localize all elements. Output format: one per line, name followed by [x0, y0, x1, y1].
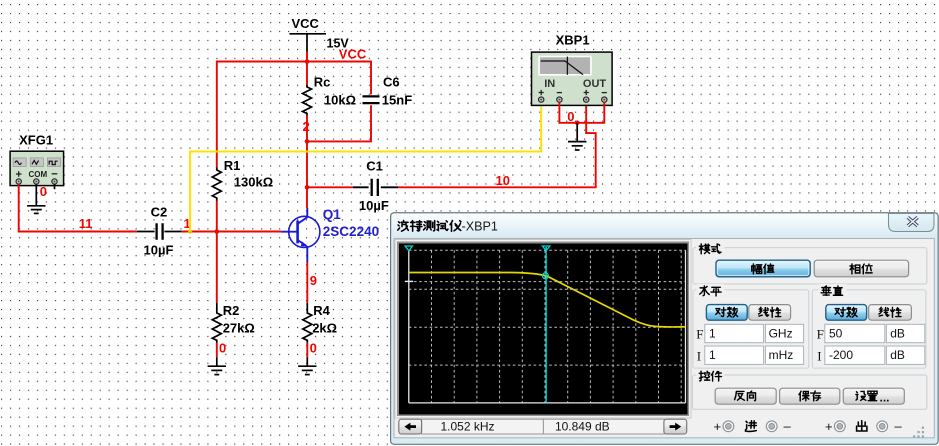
button 线性 V: [869, 305, 912, 321]
svg-text:I: I: [817, 348, 821, 363]
plot panel frame: [395, 239, 692, 419]
resistor R1: [212, 168, 221, 201]
svg-text:0: 0: [40, 184, 47, 199]
readout left arrow button: [399, 419, 422, 434]
left edge marker: [405, 246, 413, 251]
wire R1 bottom to base node: [216, 201, 218, 232]
resistor Rc: [303, 85, 312, 116]
junction node VCC rail: [305, 59, 310, 64]
capacitor C1: [353, 179, 398, 196]
svg-text:GHz: GHz: [769, 326, 793, 340]
svg-text:COM: COM: [29, 170, 48, 179]
svg-text:10.849 dB: 10.849 dB: [555, 419, 610, 433]
svg-text:F: F: [817, 327, 824, 342]
wire C2 to base node: [182, 231, 217, 233]
svg-text:1: 1: [709, 348, 716, 362]
terminal XFG1 COM: [34, 179, 39, 184]
wire C6 bottom to node 2: [307, 105, 371, 141]
svg-text:2: 2: [303, 119, 310, 134]
svg-text:F: F: [696, 327, 703, 342]
svg-text:+: +: [825, 419, 833, 434]
readout field frequency: [422, 419, 544, 434]
terminal XBP1 IN+: [539, 97, 544, 102]
plot grid: [409, 250, 686, 403]
svg-text:mHz: mHz: [769, 348, 794, 362]
svg-text:10µF: 10µF: [144, 243, 174, 258]
button 保存: [780, 388, 840, 404]
cursor circle on curve: [542, 273, 548, 279]
junction collector node: [305, 185, 310, 190]
svg-text:10kΩ: 10kΩ: [324, 92, 356, 107]
svg-text:C1: C1: [366, 159, 383, 174]
svg-text:dB: dB: [890, 326, 905, 340]
button 幅值 (selected): [716, 260, 810, 277]
cursor line: [545, 247, 547, 403]
capacitor C2: [137, 223, 182, 240]
dialog content area: [394, 239, 934, 438]
svg-text:2SC2240: 2SC2240: [323, 224, 379, 239]
dialog window frame: [391, 213, 939, 445]
svg-text:1.052 kHz: 1.052 kHz: [440, 419, 494, 433]
svg-text:0: 0: [219, 341, 226, 356]
button 线性 H: [749, 305, 791, 321]
svg-text:IN: IN: [544, 78, 555, 90]
dialog close button: [889, 213, 935, 231]
group 水平: [693, 290, 809, 368]
wire base node to R2: [216, 232, 218, 303]
svg-text:Rc: Rc: [314, 75, 331, 90]
wire XFG1 COM to ground: [35, 184, 37, 206]
svg-text:130kΩ: 130kΩ: [234, 174, 273, 189]
svg-text:0: 0: [310, 341, 317, 356]
wire node 2 to collector node: [306, 141, 308, 187]
ground R2: [208, 357, 226, 374]
wire XFG1 + down: [18, 184, 20, 231]
in probe +/- row: [714, 418, 903, 434]
svg-text:...: ...: [880, 390, 890, 404]
function generator XFG1 body: [10, 151, 64, 185]
axis marker tick: [405, 280, 413, 282]
svg-text:11: 11: [79, 216, 93, 231]
transistor Q1 2SC2240: [281, 208, 320, 262]
svg-text:10µF: 10µF: [359, 198, 389, 213]
svg-text:-XBP1: -XBP1: [462, 219, 498, 233]
wire base node to Q1 base: [217, 231, 281, 233]
power VCC symbol: [289, 34, 326, 52]
svg-text:OUT: OUT: [583, 78, 607, 90]
svg-text:9: 9: [310, 273, 317, 288]
readout right arrow button: [664, 419, 687, 434]
svg-text:dB: dB: [890, 348, 905, 362]
svg-text:C2: C2: [151, 205, 168, 220]
resistor R4: [303, 303, 312, 343]
svg-text:–: –: [895, 418, 903, 433]
resistor R2: [212, 303, 221, 343]
readout field magnitude: [543, 419, 664, 434]
wire Rc bottom to node 2: [306, 116, 308, 142]
wire input net 11: [18, 231, 137, 233]
ground R4: [298, 357, 316, 374]
svg-text:2kΩ: 2kΩ: [312, 320, 337, 335]
button 对数 H (selected): [706, 305, 747, 321]
bode magnitude curve: [409, 273, 686, 327]
svg-text:C6: C6: [383, 75, 400, 90]
group 垂直: [812, 290, 925, 368]
button 设置...: [843, 388, 904, 404]
bode plotter XBP1 body: [532, 52, 613, 105]
svg-text:27kΩ: 27kΩ: [223, 320, 255, 335]
group 模式: [693, 248, 927, 284]
svg-text:+: +: [714, 419, 722, 434]
resize grip: [913, 427, 924, 438]
svg-text:R2: R2: [223, 303, 240, 318]
button 相位: [814, 260, 908, 277]
junction base node 1: [215, 229, 220, 234]
svg-text:R4: R4: [313, 303, 330, 318]
wire R2 to ground: [216, 343, 218, 357]
cursor top marker: [542, 246, 550, 251]
wire collector node to Q1 collector: [306, 187, 308, 208]
junction XBP ground node: [575, 121, 580, 126]
junction node 2: [305, 139, 310, 144]
wire yellow to Bode IN+: [190, 106, 541, 232]
capacitor C6: [363, 96, 380, 103]
wire VCC stem (red part): [306, 52, 308, 62]
wire collector node to C1: [307, 186, 353, 188]
terminal XBP1 OUT+: [584, 97, 589, 102]
terminal XBP1 OUT-: [602, 97, 607, 102]
wire C1 to Bode OUT+ (net 10): [398, 106, 596, 188]
svg-text:50: 50: [829, 326, 843, 340]
terminal XFG1 -: [52, 179, 57, 184]
wire VCC rail to R1 branch: [217, 62, 307, 168]
svg-text:R1: R1: [224, 158, 241, 173]
svg-text:I: I: [697, 348, 701, 363]
svg-text:–: –: [784, 418, 792, 433]
svg-text:VCC: VCC: [292, 16, 320, 31]
svg-text:15nF: 15nF: [382, 92, 412, 107]
svg-text:1: 1: [709, 326, 716, 340]
terminal XFG1 +: [16, 179, 21, 184]
wire XBP1 OUT- to ground node: [577, 102, 604, 123]
svg-text:XBP1: XBP1: [556, 33, 590, 48]
svg-text:0: 0: [567, 109, 574, 124]
button 反向: [715, 388, 776, 404]
junction yellow tap: [188, 229, 192, 233]
terminal XBP1 IN-: [557, 97, 562, 102]
ground XBP1: [568, 123, 586, 150]
button 对数 V (selected): [826, 305, 867, 321]
svg-text:XFG1: XFG1: [19, 132, 53, 147]
dialog title 波特测试仪-XBP1: [398, 219, 498, 233]
wire XFG1 - stub: [54, 184, 56, 189]
wire R4 to ground: [306, 343, 308, 357]
svg-text:-200: -200: [829, 348, 853, 362]
wire emitter to R4: [306, 262, 308, 303]
wire Rc top: [306, 62, 308, 86]
svg-text:10: 10: [496, 173, 510, 188]
wire XBP1 IN- to ground node: [559, 102, 577, 123]
svg-text:Q1: Q1: [323, 207, 342, 222]
ground XFG1: [27, 206, 45, 214]
svg-text:VCC: VCC: [339, 47, 367, 62]
wire VCC rail to C6 branch: [307, 62, 371, 95]
group 控件: [692, 375, 926, 409]
